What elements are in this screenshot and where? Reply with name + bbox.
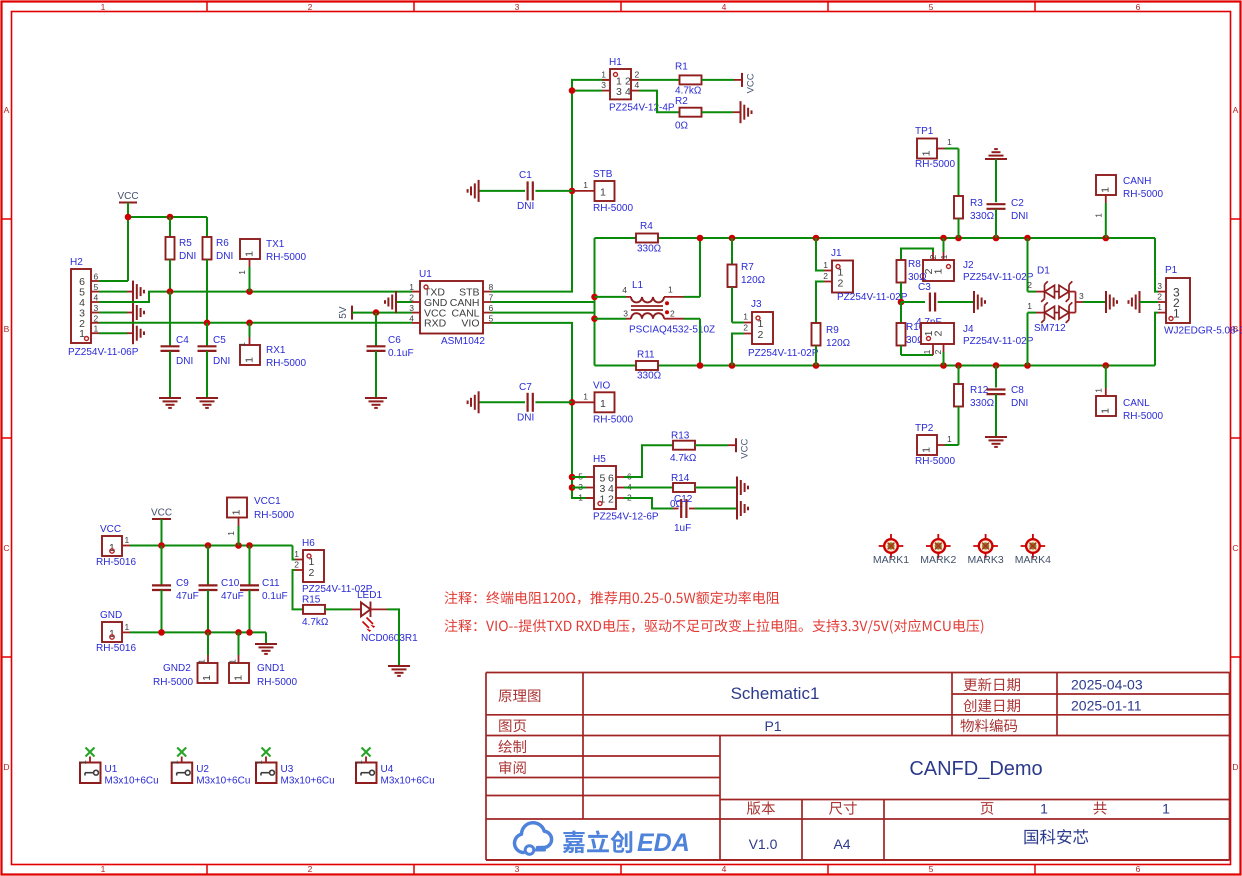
svg-text:C10: C10 bbox=[221, 578, 240, 589]
ground C5 bbox=[196, 397, 218, 399]
svg-text:C3: C3 bbox=[918, 282, 931, 293]
svg-text:330Ω: 330Ω bbox=[637, 244, 662, 255]
C11 labels bbox=[262, 578, 288, 602]
svg-text:R14: R14 bbox=[671, 473, 690, 484]
connector J1 bbox=[816, 238, 853, 323]
svg-text:3: 3 bbox=[616, 86, 622, 98]
svg-text:0.1uF: 0.1uF bbox=[262, 591, 288, 602]
H1 labels bbox=[609, 57, 675, 114]
svg-text:1: 1 bbox=[947, 434, 952, 444]
svg-text:6: 6 bbox=[94, 272, 99, 282]
svg-text:330Ω: 330Ω bbox=[637, 371, 662, 382]
title block table bbox=[486, 673, 1230, 861]
svg-text:D: D bbox=[3, 762, 9, 772]
svg-text:2: 2 bbox=[823, 271, 828, 281]
svg-text:C6: C6 bbox=[388, 335, 401, 346]
J4 labels bbox=[963, 324, 1034, 347]
svg-text:R4: R4 bbox=[640, 221, 653, 232]
R14 labels bbox=[670, 473, 690, 510]
J1 labels bbox=[831, 248, 908, 303]
svg-text:330Ω: 330Ω bbox=[970, 398, 995, 409]
svg-text:U3: U3 bbox=[281, 764, 294, 775]
test point CANL bbox=[1094, 366, 1117, 417]
capacitor C2 bbox=[987, 159, 1006, 238]
capacitor C1 bbox=[479, 181, 572, 200]
svg-text:1: 1 bbox=[1027, 301, 1032, 311]
svg-text:4: 4 bbox=[622, 285, 627, 295]
svg-text:6: 6 bbox=[1136, 864, 1141, 874]
svg-text:RH-5000: RH-5000 bbox=[266, 252, 306, 263]
mounting hole U4 M3x10+6Cu bbox=[355, 748, 377, 784]
resistor R3 bbox=[954, 149, 963, 239]
svg-text:120Ω: 120Ω bbox=[741, 275, 766, 286]
svg-text:2: 2 bbox=[308, 2, 313, 12]
svg-text:1: 1 bbox=[1173, 307, 1180, 321]
svg-text:R1: R1 bbox=[675, 62, 688, 73]
ground C3 bbox=[973, 291, 975, 313]
svg-text:3: 3 bbox=[601, 80, 606, 90]
R3 labels bbox=[970, 198, 995, 222]
svg-text:DNI: DNI bbox=[517, 201, 534, 212]
svg-text:4: 4 bbox=[409, 313, 414, 323]
R12 labels bbox=[970, 385, 995, 409]
svg-text:R3: R3 bbox=[970, 198, 983, 209]
svg-text:P1: P1 bbox=[764, 718, 781, 734]
svg-text:1: 1 bbox=[600, 187, 606, 199]
svg-text:3: 3 bbox=[94, 303, 99, 313]
svg-text:5: 5 bbox=[929, 864, 934, 874]
svg-text:1: 1 bbox=[1100, 408, 1112, 414]
svg-text:TP2: TP2 bbox=[915, 423, 934, 434]
test point CANH bbox=[1094, 175, 1117, 238]
svg-text:C11: C11 bbox=[262, 578, 280, 589]
test point VCC1 bbox=[226, 498, 247, 546]
svg-text:VCC: VCC bbox=[117, 191, 138, 202]
svg-text:RH-5000: RH-5000 bbox=[254, 510, 294, 521]
junction 5V bbox=[373, 309, 380, 316]
svg-text:H2: H2 bbox=[70, 257, 83, 268]
svg-text:M3x10+6Cu: M3x10+6Cu bbox=[381, 776, 435, 787]
fiducial MARK3 bbox=[973, 534, 998, 559]
GND1 labels bbox=[257, 663, 297, 688]
R7 labels bbox=[741, 262, 766, 286]
ground D1 pin3 bbox=[1105, 291, 1107, 313]
svg-text:1: 1 bbox=[101, 2, 106, 12]
U1 hole labels bbox=[105, 764, 159, 787]
note 1 bbox=[445, 591, 780, 604]
svg-text:TX1: TX1 bbox=[266, 239, 285, 250]
svg-text:C12: C12 bbox=[674, 494, 693, 505]
svg-text:1: 1 bbox=[823, 260, 828, 270]
resistor R6 bbox=[203, 217, 212, 323]
note 2 bbox=[445, 619, 984, 634]
svg-text:0.1uF: 0.1uF bbox=[388, 348, 414, 359]
C4 labels bbox=[176, 335, 193, 367]
svg-text:1: 1 bbox=[409, 282, 414, 292]
power flag VCC (top left) bbox=[117, 191, 138, 203]
svg-text:1: 1 bbox=[294, 549, 299, 559]
svg-text:SM712: SM712 bbox=[1034, 323, 1066, 334]
svg-text:PSCIAQ4532-510Z: PSCIAQ4532-510Z bbox=[629, 325, 715, 336]
junction VIO bbox=[569, 399, 576, 491]
svg-text:PZ254V-11-02P: PZ254V-11-02P bbox=[963, 336, 1034, 347]
wire VCC rail bottom-left bbox=[130, 546, 295, 560]
connector J2 bbox=[901, 238, 954, 281]
svg-text:C9: C9 bbox=[176, 578, 189, 589]
test point VIO bbox=[572, 391, 615, 412]
svg-text:2: 2 bbox=[758, 329, 764, 341]
svg-text:2: 2 bbox=[635, 70, 640, 80]
svg-text:1: 1 bbox=[355, 759, 364, 764]
wire CANL bus bottom bbox=[595, 313, 1159, 366]
svg-text:2: 2 bbox=[94, 313, 99, 323]
svg-text:1: 1 bbox=[668, 285, 673, 295]
R2 labels bbox=[675, 96, 689, 132]
svg-text:C8: C8 bbox=[1011, 385, 1024, 396]
svg-text:EDA: EDA bbox=[637, 829, 690, 857]
svg-text:330Ω: 330Ω bbox=[970, 211, 995, 222]
svg-text:2: 2 bbox=[308, 864, 313, 874]
R9 labels bbox=[826, 325, 851, 349]
svg-text:RH-5016: RH-5016 bbox=[96, 643, 136, 654]
capacitor C8 bbox=[987, 366, 1006, 438]
ground C8 bbox=[985, 436, 1007, 438]
resistor R2 bbox=[639, 91, 741, 117]
resistor R12 bbox=[954, 366, 963, 446]
ground H2 pin3 bbox=[99, 302, 144, 324]
svg-text:PZ254V-11-02P: PZ254V-11-02P bbox=[963, 272, 1034, 283]
svg-text:1: 1 bbox=[921, 447, 933, 453]
svg-text:CANH: CANH bbox=[1123, 176, 1151, 187]
ground H2 pin5 bbox=[99, 281, 144, 303]
svg-text:2: 2 bbox=[608, 493, 614, 505]
R8 labels bbox=[908, 259, 927, 283]
svg-text:3: 3 bbox=[623, 309, 628, 319]
R1 labels bbox=[675, 62, 702, 97]
R15 labels bbox=[302, 595, 329, 629]
ground C1 bbox=[478, 180, 480, 202]
svg-text:0Ω: 0Ω bbox=[675, 121, 689, 132]
svg-text:MARK1: MARK1 bbox=[873, 554, 909, 566]
svg-text:VCC: VCC bbox=[746, 73, 757, 93]
wire GND rail bbox=[130, 632, 266, 644]
svg-text:C2: C2 bbox=[1011, 198, 1024, 209]
resistor R15 bbox=[303, 605, 352, 614]
svg-text:PZ254V-11-02P: PZ254V-11-02P bbox=[837, 292, 908, 303]
R10 labels bbox=[906, 322, 925, 346]
svg-text:C: C bbox=[3, 543, 9, 553]
svg-text:1: 1 bbox=[743, 312, 748, 322]
connector H1 bbox=[601, 69, 639, 99]
J3 labels bbox=[748, 299, 819, 359]
svg-text:A: A bbox=[1233, 105, 1239, 115]
svg-text:3: 3 bbox=[515, 2, 520, 12]
svg-text:1: 1 bbox=[1162, 801, 1170, 817]
capacitor C9 bbox=[152, 546, 171, 633]
svg-text:RH-5000: RH-5000 bbox=[1123, 411, 1163, 422]
svg-text:GND1: GND1 bbox=[257, 663, 285, 674]
C10 labels bbox=[221, 578, 244, 602]
svg-text:1: 1 bbox=[1100, 187, 1112, 193]
svg-text:R8: R8 bbox=[908, 259, 921, 270]
resistor R8 bbox=[897, 260, 906, 302]
svg-text:3: 3 bbox=[409, 303, 414, 313]
test point STB bbox=[572, 180, 615, 201]
mounting hole U2 M3x10+6Cu bbox=[171, 748, 193, 784]
L1 labels bbox=[629, 280, 715, 336]
svg-text:PZ254V-12-6P: PZ254V-12-6P bbox=[593, 512, 659, 523]
frame column ticks bbox=[207, 2, 1035, 875]
diode D1 SM712 TVS bbox=[1027, 238, 1106, 366]
svg-text:6: 6 bbox=[1136, 2, 1141, 12]
svg-text:H5: H5 bbox=[593, 454, 606, 465]
connector J3 bbox=[732, 312, 773, 366]
svg-text:1: 1 bbox=[1094, 388, 1104, 393]
mounting hole U3 M3x10+6Cu bbox=[255, 748, 277, 784]
svg-text:1: 1 bbox=[578, 493, 583, 503]
svg-text:120Ω: 120Ω bbox=[826, 338, 851, 349]
LED1 labels bbox=[357, 590, 418, 644]
svg-text:4: 4 bbox=[722, 2, 727, 12]
svg-text:VCC1: VCC1 bbox=[254, 496, 281, 507]
svg-text:VCC: VCC bbox=[740, 439, 751, 459]
R6 labels bbox=[216, 238, 233, 262]
svg-text:2: 2 bbox=[933, 330, 945, 336]
svg-text:1: 1 bbox=[1040, 801, 1048, 817]
ground LED1 bbox=[388, 665, 410, 667]
junction top bus bbox=[697, 235, 1109, 242]
capacitor C11 bbox=[240, 546, 259, 633]
svg-text:4.7kΩ: 4.7kΩ bbox=[302, 617, 329, 628]
LED LED1 bbox=[352, 602, 387, 633]
CANH labels bbox=[1123, 176, 1163, 200]
svg-text:DNI: DNI bbox=[176, 356, 193, 367]
capacitor C4 bbox=[161, 292, 180, 398]
STB labels bbox=[593, 169, 633, 214]
svg-text:1: 1 bbox=[583, 391, 588, 401]
svg-text:C: C bbox=[1232, 543, 1238, 553]
P1 labels bbox=[1164, 265, 1242, 337]
svg-text:1: 1 bbox=[1094, 213, 1104, 218]
resistor R4 bbox=[636, 234, 658, 243]
U2 hole labels bbox=[196, 764, 250, 787]
svg-text:RH-5000: RH-5000 bbox=[915, 159, 955, 170]
H5 labels bbox=[593, 454, 659, 523]
svg-text:P1: P1 bbox=[1165, 265, 1178, 276]
test point TP1 bbox=[917, 137, 959, 159]
svg-text:C5: C5 bbox=[213, 335, 226, 346]
ground C2 (inverted) bbox=[985, 158, 1007, 160]
svg-text:1uF: 1uF bbox=[674, 523, 691, 534]
svg-text:1: 1 bbox=[947, 137, 952, 147]
svg-text:PZ254V-11-06P: PZ254V-11-06P bbox=[68, 347, 139, 358]
power flag 5V bbox=[338, 306, 352, 320]
wire RXD net bbox=[99, 322, 412, 324]
svg-text:R5: R5 bbox=[179, 238, 192, 249]
VCC1 labels bbox=[254, 496, 294, 521]
C6 labels bbox=[388, 335, 414, 359]
svg-text:C1: C1 bbox=[519, 170, 532, 181]
svg-text:2: 2 bbox=[928, 254, 938, 259]
resistor R9 bbox=[812, 323, 821, 366]
VIO labels bbox=[593, 380, 633, 425]
ground P1 pin2 bbox=[1129, 291, 1167, 313]
wire CANL U1 to L1 bbox=[491, 313, 595, 319]
VCC RH-5016 labels bbox=[96, 524, 136, 568]
svg-text:ASM1042: ASM1042 bbox=[441, 336, 485, 347]
connector J4 bbox=[901, 323, 954, 366]
svg-text:PZ254V-11-02P: PZ254V-11-02P bbox=[748, 348, 819, 359]
svg-text:M3x10+6Cu: M3x10+6Cu bbox=[281, 776, 335, 787]
svg-text:V1.0: V1.0 bbox=[749, 836, 778, 852]
C12 labels bbox=[674, 494, 693, 534]
GND RH-5016 labels bbox=[96, 610, 136, 654]
ground C4 bbox=[159, 397, 181, 399]
svg-text:1: 1 bbox=[125, 622, 130, 632]
svg-text:4: 4 bbox=[625, 86, 631, 98]
svg-text:1: 1 bbox=[228, 659, 238, 664]
H2 labels bbox=[68, 257, 139, 358]
connector H2 bbox=[71, 269, 99, 343]
inductor L1 PSCIAQ4532-510Z bbox=[595, 285, 701, 319]
junction STB bbox=[569, 87, 576, 194]
svg-text:4: 4 bbox=[722, 864, 727, 874]
resistor R11 bbox=[636, 361, 658, 370]
svg-text:DNI: DNI bbox=[179, 251, 196, 262]
svg-text:H1: H1 bbox=[609, 57, 622, 68]
svg-text:R9: R9 bbox=[826, 325, 839, 336]
frame row ticks bbox=[2, 219, 1240, 657]
resistor R13 bbox=[624, 441, 736, 477]
junction VCC rail bbox=[125, 214, 174, 221]
svg-text:MARK2: MARK2 bbox=[920, 554, 956, 566]
svg-text:DNI: DNI bbox=[213, 356, 230, 367]
svg-text:VCC: VCC bbox=[100, 524, 121, 535]
test point VCC (RH-5016) bbox=[102, 535, 130, 556]
capacitor C3 bbox=[901, 293, 974, 312]
svg-text:R11: R11 bbox=[637, 350, 655, 361]
svg-text:4.7kΩ: 4.7kΩ bbox=[670, 453, 697, 464]
wire L1 left vertical bbox=[594, 238, 596, 366]
svg-text:1: 1 bbox=[255, 759, 264, 764]
svg-text:U1: U1 bbox=[419, 269, 432, 280]
svg-text:1: 1 bbox=[94, 324, 99, 334]
svg-text:WJ2EDGR-5.08-3P: WJ2EDGR-5.08-3P bbox=[1164, 326, 1242, 337]
svg-text:RXD: RXD bbox=[424, 318, 447, 330]
svg-text:RH-5000: RH-5000 bbox=[1123, 189, 1163, 200]
svg-text:VIO: VIO bbox=[593, 380, 610, 391]
svg-text:4: 4 bbox=[94, 293, 99, 303]
C3 labels bbox=[916, 282, 942, 328]
svg-text:J4: J4 bbox=[963, 324, 974, 335]
svg-text:STB: STB bbox=[593, 169, 613, 180]
wire 5V to U1 bbox=[352, 312, 412, 314]
C5 labels bbox=[213, 335, 230, 367]
svg-text:1: 1 bbox=[244, 251, 256, 257]
TP1 labels bbox=[915, 126, 955, 170]
svg-text:U1: U1 bbox=[105, 764, 118, 775]
svg-text:RH-5000: RH-5000 bbox=[266, 358, 306, 369]
TP2 labels bbox=[915, 423, 955, 467]
junction RXD bbox=[204, 320, 253, 327]
connector H5 bbox=[572, 466, 632, 509]
wire CANH U1 to L1 bbox=[491, 297, 595, 302]
svg-text:RX1: RX1 bbox=[266, 345, 286, 356]
ground C7 bbox=[478, 391, 480, 413]
test point TP2 bbox=[917, 434, 959, 455]
U4 hole labels bbox=[381, 764, 435, 787]
svg-text:J1: J1 bbox=[831, 248, 842, 259]
capacitor C6 bbox=[367, 313, 386, 398]
svg-text:1: 1 bbox=[233, 675, 245, 681]
junction bottom bus bbox=[697, 362, 1109, 369]
svg-text:DNI: DNI bbox=[216, 251, 233, 262]
TX1 labels bbox=[266, 239, 306, 263]
svg-text:DNI: DNI bbox=[517, 413, 534, 424]
svg-text:47uF: 47uF bbox=[176, 591, 199, 602]
wire LED1 to ground bbox=[387, 609, 399, 666]
resistor R7 bbox=[728, 238, 737, 323]
svg-text:B: B bbox=[4, 324, 10, 334]
svg-text:1: 1 bbox=[922, 349, 932, 354]
title block values bbox=[731, 677, 1171, 853]
svg-text:CANFD_Demo: CANFD_Demo bbox=[909, 758, 1042, 780]
svg-text:5V: 5V bbox=[338, 306, 349, 319]
wire L1 right vertical bottom bbox=[699, 319, 701, 366]
mounting hole U1 M3x10+6Cu bbox=[79, 748, 101, 784]
svg-text:2025-04-03: 2025-04-03 bbox=[1071, 677, 1143, 693]
svg-text:2: 2 bbox=[294, 560, 299, 570]
svg-text:1: 1 bbox=[244, 357, 256, 363]
svg-text:1: 1 bbox=[171, 759, 180, 764]
svg-text:2: 2 bbox=[670, 309, 675, 319]
svg-text:1: 1 bbox=[939, 254, 949, 259]
svg-text:1: 1 bbox=[101, 864, 106, 874]
wire VCC rail top-left bbox=[99, 203, 207, 282]
test point GND2 bbox=[197, 632, 218, 683]
ground U1 GND pin bbox=[385, 291, 412, 313]
svg-text:2025-01-11: 2025-01-11 bbox=[1071, 698, 1142, 714]
test point TX1 bbox=[237, 239, 260, 292]
svg-text:RH-5000: RH-5000 bbox=[915, 456, 955, 467]
svg-text:1: 1 bbox=[125, 535, 130, 545]
capacitor C7 bbox=[479, 393, 572, 412]
svg-text:R2: R2 bbox=[675, 96, 688, 107]
svg-text:1: 1 bbox=[237, 342, 247, 347]
svg-text:1: 1 bbox=[933, 268, 945, 274]
C7 labels bbox=[517, 382, 534, 424]
capacitor C5 bbox=[198, 323, 217, 398]
svg-text:M3x10+6Cu: M3x10+6Cu bbox=[196, 776, 250, 787]
GND2 labels bbox=[153, 663, 193, 688]
svg-text:1: 1 bbox=[921, 150, 933, 156]
R13 labels bbox=[670, 431, 697, 464]
svg-text:D: D bbox=[1232, 762, 1238, 772]
svg-text:Schematic1: Schematic1 bbox=[731, 684, 820, 703]
svg-text:U4: U4 bbox=[381, 764, 394, 775]
svg-text:2: 2 bbox=[1027, 280, 1032, 290]
resistor R5 bbox=[166, 217, 175, 292]
C2 labels bbox=[1011, 198, 1028, 222]
svg-text:U2: U2 bbox=[196, 764, 209, 775]
svg-text:2: 2 bbox=[1157, 292, 1162, 302]
svg-text:J2: J2 bbox=[963, 260, 974, 271]
svg-text:J3: J3 bbox=[751, 299, 762, 310]
test point RX1 bbox=[237, 323, 260, 365]
svg-text:4: 4 bbox=[635, 80, 640, 90]
svg-text:1: 1 bbox=[226, 531, 236, 536]
ground R2 bbox=[740, 101, 742, 123]
